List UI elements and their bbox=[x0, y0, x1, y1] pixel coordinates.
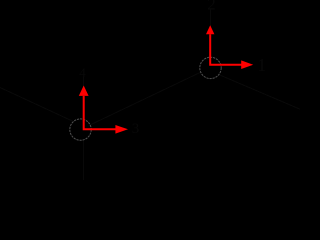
svg-text:1: 1 bbox=[257, 55, 266, 75]
svg-text:3: 3 bbox=[132, 121, 140, 137]
svg-text:4: 4 bbox=[79, 65, 86, 80]
svg-text:2: 2 bbox=[207, 0, 216, 13]
